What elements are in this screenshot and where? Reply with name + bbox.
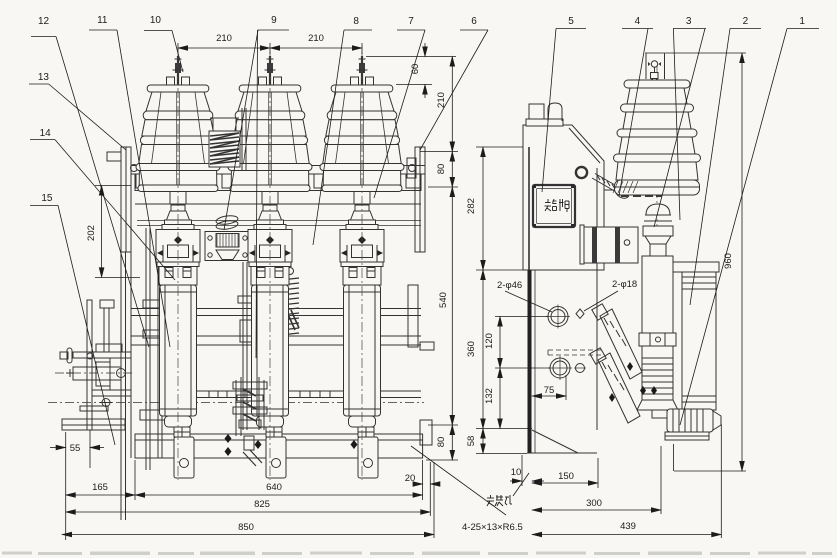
svg-text:80: 80 <box>436 164 447 175</box>
svg-text:4: 4 <box>635 16 641 27</box>
svg-text:8: 8 <box>353 16 359 27</box>
svg-text:10: 10 <box>150 15 162 26</box>
svg-text:15: 15 <box>41 193 53 204</box>
svg-text:300: 300 <box>586 498 602 509</box>
svg-text:202: 202 <box>86 225 97 241</box>
svg-text:20: 20 <box>405 473 416 484</box>
svg-text:150: 150 <box>558 471 574 482</box>
svg-text:850: 850 <box>238 522 254 533</box>
svg-text:2: 2 <box>743 16 749 27</box>
svg-text:640: 640 <box>266 482 282 493</box>
svg-text:3: 3 <box>686 16 692 27</box>
svg-text:2-φ18: 2-φ18 <box>612 279 637 290</box>
svg-text:7: 7 <box>408 16 414 27</box>
svg-text:13: 13 <box>38 72 50 83</box>
svg-text:2-φ46: 2-φ46 <box>497 280 522 291</box>
svg-text:540: 540 <box>438 292 449 308</box>
svg-text:825: 825 <box>254 499 270 510</box>
svg-text:210: 210 <box>216 33 232 44</box>
svg-text:14: 14 <box>40 128 52 139</box>
svg-text:11: 11 <box>97 15 108 26</box>
svg-text:360: 360 <box>466 341 477 357</box>
svg-text:75: 75 <box>544 385 555 396</box>
svg-text:55: 55 <box>70 443 81 454</box>
svg-text:1: 1 <box>799 16 805 27</box>
svg-text:10: 10 <box>511 467 522 478</box>
svg-text:210: 210 <box>308 33 324 44</box>
svg-text:4-25×13×R6.5: 4-25×13×R6.5 <box>462 522 523 533</box>
svg-text:165: 165 <box>92 482 108 493</box>
svg-text:12: 12 <box>38 16 50 27</box>
svg-text:120: 120 <box>484 333 495 349</box>
svg-text:80: 80 <box>436 437 447 448</box>
svg-text:58: 58 <box>466 436 477 447</box>
svg-text:282: 282 <box>466 198 477 214</box>
svg-text:6: 6 <box>471 16 477 27</box>
svg-text:132: 132 <box>484 388 495 404</box>
svg-text:5: 5 <box>568 16 574 27</box>
svg-text:439: 439 <box>620 521 636 532</box>
svg-text:9: 9 <box>271 15 277 26</box>
